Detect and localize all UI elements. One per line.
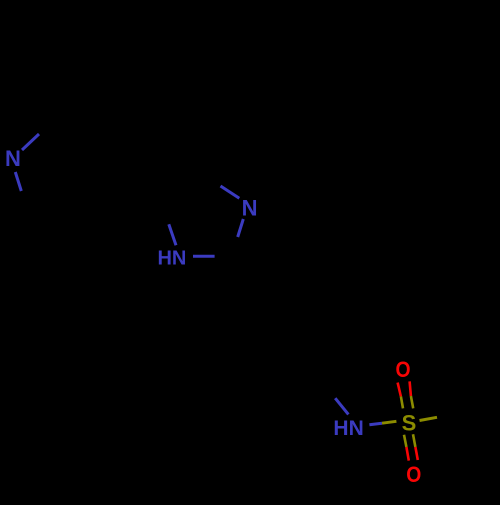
S=O upper double bond line 2, oxygen half [410,381,411,396]
svg-text:O: O [395,358,410,382]
bond N1-C6 (visible blue half, up-right) [22,134,39,150]
bond N3-C2i (visible blue half, down-left of N3) [238,219,244,237]
svg-text:N: N [242,196,258,221]
S=O upper double bond line 2, sulfur half [411,396,413,408]
svg-text:HN: HN [333,417,363,440]
bond N-S blue half [369,423,382,425]
bond N1H-C2i (visible blue half, horizontal right of HN) [193,255,215,258]
S=O upper double bond line 1, sulfur half [401,397,403,409]
S=O upper double bond line 1, oxygen half [398,383,401,397]
S=O lower double bond line 2, oxygen half [415,447,417,460]
S=O lower double bond line 2, sulfur half [413,434,415,447]
S=O lower double bond line 1, oxygen half [406,447,408,461]
S=O lower double bond line 1, sulfur half [404,435,406,447]
svg-text:S: S [402,411,417,436]
svg-text:N: N [5,146,21,171]
svg-text:HN: HN [157,248,186,270]
bond S-CH3 (visible sulfur half, right of S) [420,417,438,420]
bond N1H-C5 (visible blue half, up-left of HN) [169,224,176,245]
bond N3-C4 (visible blue half, up-left of N3) [221,186,240,198]
svg-text:O: O [406,463,421,487]
bond N-S sulfur half [382,421,396,423]
bond NH-Caryl (visible blue half, up-left of HN) [335,398,348,414]
bond N1-C2 (visible blue half, down-right) [15,172,21,191]
